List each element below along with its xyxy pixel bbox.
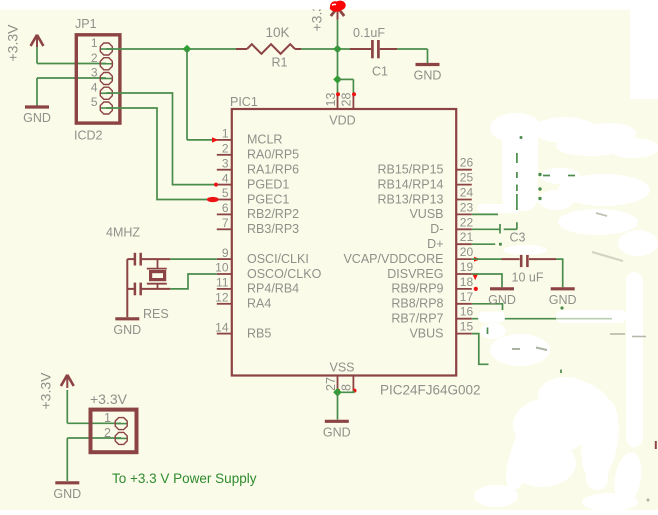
svg-text:7: 7 (222, 216, 229, 230)
svg-text:PGEC1: PGEC1 (247, 192, 289, 206)
svg-text:24: 24 (460, 186, 474, 200)
svg-text:12: 12 (215, 291, 229, 305)
wire pin 17 RB8 (472, 304, 503, 310)
pin 18 RB9/RP9 (391, 275, 473, 296)
svg-text:1: 1 (222, 127, 229, 141)
pin 27 stub (324, 376, 340, 393)
node junction MCLR net (183, 45, 192, 54)
marker pin4 PGED1 red dot (214, 183, 218, 187)
wire JP1 pin5 to PGEC1 (106, 108, 217, 200)
ground GND (resonator) (113, 319, 141, 337)
wire pin8 to pin27 net (338, 390, 354, 392)
marker pin1 MCLR red arrow (212, 137, 219, 142)
wire pin 20 VCAP (472, 258, 502, 260)
pin 22 D- (430, 215, 473, 236)
svg-text:JP1: JP1 (75, 17, 97, 31)
svg-text:15: 15 (460, 320, 474, 334)
svg-text:RA1/RP6: RA1/RP6 (247, 163, 299, 177)
pin 9 OSCI/CLKI (217, 246, 309, 266)
wire JP1 pin 3 to GND (37, 78, 106, 106)
ground GND (VSS) (323, 421, 351, 439)
wire pin 21 D+ (472, 243, 495, 245)
wire R1 to VDD node (301, 48, 350, 50)
wire connector pin1 to +3.3V (67, 422, 121, 424)
marker pin20 red arrow (474, 257, 480, 262)
svg-text:RB8/RP8: RB8/RP8 (391, 297, 443, 311)
power +3.3V supply symbol (top) (309, 0, 345, 49)
wire junction to IC pin 1 MCLR (187, 49, 217, 140)
ground GND (C3) (549, 289, 577, 307)
wire VDD branch to pin 28 (338, 79, 354, 93)
pin 24 RB13/RP13 (377, 186, 473, 207)
svg-text:PIC24FJ64G002: PIC24FJ64G002 (380, 383, 481, 398)
svg-text:RB14/RP14: RB14/RP14 (377, 177, 443, 191)
svg-text:GND: GND (53, 487, 81, 501)
svg-text:DISVREG: DISVREG (387, 267, 443, 281)
svg-text:PIC1: PIC1 (230, 95, 258, 109)
svg-text:8: 8 (340, 384, 354, 391)
connector JP1 (ICD2) (74, 17, 120, 143)
svg-text:GND: GND (23, 111, 51, 125)
label power supply note (112, 471, 257, 486)
svg-text:RB2/RP2: RB2/RP2 (247, 207, 299, 221)
pin 13 stub (324, 92, 340, 108)
svg-text:R1: R1 (272, 56, 288, 70)
marker pin5 PGEC1 red blob (207, 197, 219, 202)
ground GND (DISVREG) (488, 289, 516, 307)
svg-text:GND: GND (549, 293, 577, 307)
connector +3.3V power (90, 391, 137, 452)
capacitor C1 0.1uF (350, 26, 397, 79)
wire resonator to pin 10 OSCO (170, 274, 217, 289)
pin 2 RA0/RP5 (217, 142, 299, 162)
wire pin 22 D- (472, 224, 500, 234)
marker red scribble blob on +3.3V (330, 1, 346, 12)
svg-text:VCAP/VDDCORE: VCAP/VDDCORE (343, 252, 443, 266)
svg-text:RA4: RA4 (247, 297, 271, 311)
svg-text:D-: D- (430, 222, 443, 236)
svg-text:5: 5 (91, 95, 98, 109)
pin 16 RB7/RP7 (391, 305, 473, 326)
ground GND (JP1) (23, 107, 51, 125)
svg-text:3: 3 (91, 66, 98, 80)
svg-text:OSCO/CLKO: OSCO/CLKO (247, 267, 322, 281)
svg-text:GND: GND (414, 69, 442, 83)
wire JP1 pin1 to R1 (MCLR net) (106, 48, 236, 50)
pin 26 RB15/RP15 (377, 156, 473, 177)
svg-text:C1: C1 (372, 65, 388, 79)
power +3.3V supply symbol (bottom left) (38, 372, 74, 423)
pin 3 RA1/RP6 (217, 156, 299, 176)
pin 7 RB3/RP3 (217, 216, 299, 236)
svg-text:VUSB: VUSB (409, 207, 443, 221)
svg-text:2: 2 (104, 426, 111, 440)
svg-text:RB5: RB5 (247, 326, 271, 340)
svg-text:10: 10 (215, 261, 229, 275)
svg-text:GND: GND (323, 425, 351, 439)
op IC PIC1 PIC24FJ64G002 box (230, 95, 481, 398)
svg-text:14: 14 (215, 320, 229, 334)
pin 11 RP4/RB4 (216, 276, 299, 296)
pin 25 RB14/RP14 (377, 171, 473, 192)
wire +3.3V to JP1 pin 2 (37, 63, 106, 65)
pin 4 PGED1 (217, 171, 290, 191)
node junction VSS (333, 388, 342, 397)
wire pin 19 DISVREG to GND (472, 274, 502, 287)
svg-text:VDD: VDD (329, 114, 355, 128)
svg-text:5: 5 (222, 186, 229, 200)
svg-text:C3: C3 (510, 231, 526, 245)
wire pin 23 VUSB (472, 213, 498, 215)
svg-text:RB9/RP9: RB9/RP9 (391, 282, 443, 296)
svg-text:6: 6 (222, 201, 229, 215)
wire connector pin2 to GND (67, 438, 121, 481)
svg-text:OSCI/CLKI: OSCI/CLKI (247, 252, 309, 266)
wire JP1 pin4 to PGED1 (106, 93, 217, 185)
svg-text:10 uF: 10 uF (512, 271, 544, 285)
wire fragments in erased area (330, 1, 656, 502)
svg-text:+3.3V: +3.3V (90, 391, 128, 407)
svg-text:25: 25 (460, 171, 474, 185)
svg-text:D+: D+ (427, 237, 443, 251)
svg-text:17: 17 (460, 290, 474, 304)
pin 12 RA4 (215, 291, 271, 311)
svg-text:RB13/RP13: RB13/RP13 (377, 192, 443, 206)
wire VDD to pin 13 (337, 49, 339, 94)
svg-text:4: 4 (222, 171, 229, 185)
wire C1 to GND (397, 49, 428, 63)
capacitor C3 10 uF (502, 231, 557, 285)
ground GND (power connector) (53, 483, 81, 501)
wire pin 15 VBUS (472, 334, 489, 365)
svg-text:20: 20 (460, 245, 474, 259)
pin 20 VCAP/VDDCORE (343, 245, 473, 266)
marker pin18 red dot (474, 287, 478, 291)
power +3.3V supply symbol (left) (5, 24, 44, 64)
svg-text:27: 27 (324, 377, 338, 391)
svg-text:RES: RES (143, 307, 169, 321)
pin 19 DISVREG (387, 260, 473, 281)
svg-text:16: 16 (460, 305, 474, 319)
svg-text:GND: GND (488, 293, 516, 307)
svg-text:28: 28 (340, 93, 354, 107)
pin 28 stub (340, 92, 356, 108)
node junction VDD branch (333, 75, 342, 84)
svg-text:RP4/RB4: RP4/RB4 (247, 282, 299, 296)
svg-text:VSS: VSS (329, 361, 354, 375)
svg-text:1: 1 (104, 411, 111, 425)
svg-text:1: 1 (91, 36, 98, 50)
svg-text:RB7/RP7: RB7/RP7 (391, 312, 443, 326)
ground GND (C1) (414, 65, 442, 83)
svg-text:26: 26 (460, 156, 474, 170)
wire C3 to GND (556, 259, 563, 287)
node junction VDD net top (333, 45, 342, 54)
svg-text:MCLR: MCLR (247, 133, 282, 147)
svg-text:11: 11 (216, 276, 229, 290)
svg-text:10K: 10K (266, 25, 290, 40)
svg-text:RB3/RP3: RB3/RP3 (247, 222, 299, 236)
svg-text:VBUS: VBUS (409, 326, 443, 340)
svg-text:19: 19 (460, 260, 474, 274)
pin 17 RB8/RP8 (391, 290, 473, 311)
resistor R1 10K (236, 25, 301, 70)
wire VSS to GND (337, 390, 339, 419)
svg-text:RB15/RP15: RB15/RP15 (377, 163, 443, 177)
svg-text:4MHZ: 4MHZ (106, 226, 140, 240)
svg-text:18: 18 (460, 275, 474, 289)
pin 8 stub (340, 376, 357, 393)
svg-text:21: 21 (460, 230, 474, 244)
wire pin 16 RB7 (472, 318, 584, 320)
svg-text:13: 13 (324, 93, 338, 107)
pin 6 RB2/RP2 (217, 201, 299, 221)
svg-text:9: 9 (222, 246, 229, 260)
pin 23 VUSB (409, 200, 473, 221)
pin 15 VBUS (409, 320, 473, 341)
svg-text:2: 2 (91, 51, 98, 65)
pin 10 OSCO/CLKO (215, 261, 321, 281)
pin 21 D+ (427, 230, 473, 251)
pin 5 PGEC1 (217, 186, 290, 206)
svg-text:To +3.3 V Power Supply: To +3.3 V Power Supply (112, 471, 257, 486)
svg-text:PGED1: PGED1 (247, 177, 289, 191)
svg-text:RA0/RP5: RA0/RP5 (247, 148, 299, 162)
pin 14 RB5 (215, 320, 271, 340)
wire resonator to pin 9 OSCI (170, 258, 217, 260)
svg-text:ICD2: ICD2 (74, 129, 103, 143)
svg-text:2: 2 (222, 142, 229, 156)
svg-text:+3.3V: +3.3V (5, 24, 21, 62)
svg-text:GND: GND (113, 323, 141, 337)
pin 1 MCLR (217, 127, 283, 147)
crystal resonator RES 4MHZ (106, 226, 170, 321)
svg-text:0.1uF: 0.1uF (353, 26, 385, 40)
svg-text:+3.3V: +3.3V (38, 372, 54, 410)
svg-text:22: 22 (460, 215, 474, 229)
svg-text:4: 4 (91, 80, 98, 94)
svg-text:3: 3 (222, 156, 229, 170)
marker pin19 red arrow (473, 275, 478, 281)
svg-text:23: 23 (460, 200, 474, 214)
